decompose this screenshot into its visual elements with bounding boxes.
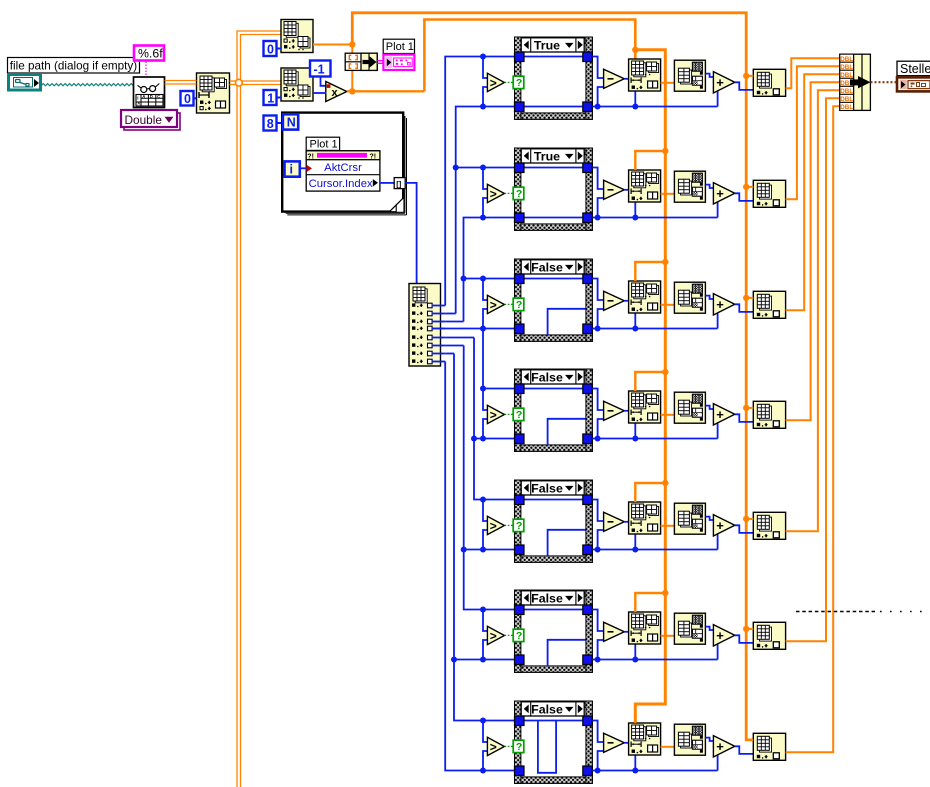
svg-text:0: 0	[267, 42, 274, 56]
svg-text:0: 0	[184, 92, 191, 106]
svg-text:Plot 1: Plot 1	[310, 139, 338, 151]
svg-text:?: ?	[516, 77, 522, 89]
svg-text:+: +	[716, 739, 724, 754]
svg-text:%.6f: %.6f	[138, 47, 163, 61]
svg-text:file path (dialog if empty): file path (dialog if empty)	[10, 60, 137, 73]
svg-text:>: >	[490, 629, 497, 643]
svg-text:False: False	[531, 481, 563, 495]
svg-text:[]: []	[396, 179, 401, 188]
svg-text:A: A	[142, 94, 145, 99]
svg-text:?!: ?!	[307, 154, 314, 161]
svg-text:>: >	[490, 298, 497, 312]
svg-text:AktCrsr: AktCrsr	[324, 162, 362, 174]
svg-text:False: False	[531, 591, 563, 605]
svg-text:+: +	[716, 628, 724, 643]
svg-text:Cursor.Index: Cursor.Index	[309, 178, 373, 190]
svg-text:>: >	[490, 408, 497, 422]
svg-text:DBL: DBL	[840, 104, 853, 111]
svg-text:1: 1	[267, 91, 274, 105]
svg-text:Double: Double	[125, 113, 163, 127]
svg-text:?: ?	[516, 188, 522, 200]
svg-text:+: +	[716, 75, 724, 90]
svg-text:-1: -1	[314, 62, 325, 76]
svg-text:False: False	[531, 260, 563, 274]
svg-text:D: D	[150, 94, 153, 99]
svg-text:X: X	[137, 101, 140, 106]
svg-text:>: >	[490, 519, 497, 533]
svg-text:False: False	[531, 370, 563, 384]
svg-text:?: ?	[516, 409, 522, 421]
svg-text:True: True	[534, 149, 560, 163]
svg-text:C: C	[157, 94, 160, 99]
svg-text:+: +	[716, 297, 724, 312]
svg-text:8: 8	[267, 117, 274, 131]
svg-text:Plot 1: Plot 1	[386, 41, 414, 53]
svg-text:+: +	[716, 186, 724, 201]
svg-text:+: +	[716, 518, 724, 533]
svg-text:N: N	[287, 116, 296, 130]
svg-text:?: ?	[516, 741, 522, 753]
svg-text:?!: ?!	[370, 154, 377, 161]
svg-text:x: x	[332, 87, 339, 99]
svg-text:i: i	[290, 163, 293, 177]
svg-text:>: >	[490, 187, 497, 201]
svg-text:>: >	[490, 740, 497, 754]
svg-text:?: ?	[516, 520, 522, 532]
svg-text:False: False	[531, 702, 563, 716]
svg-text:?: ?	[516, 299, 522, 311]
svg-text:>: >	[490, 76, 497, 90]
svg-text:True: True	[534, 38, 560, 52]
svg-text:?: ?	[516, 630, 522, 642]
svg-text:Steller: Steller	[900, 62, 930, 76]
svg-text:+: +	[716, 407, 724, 422]
